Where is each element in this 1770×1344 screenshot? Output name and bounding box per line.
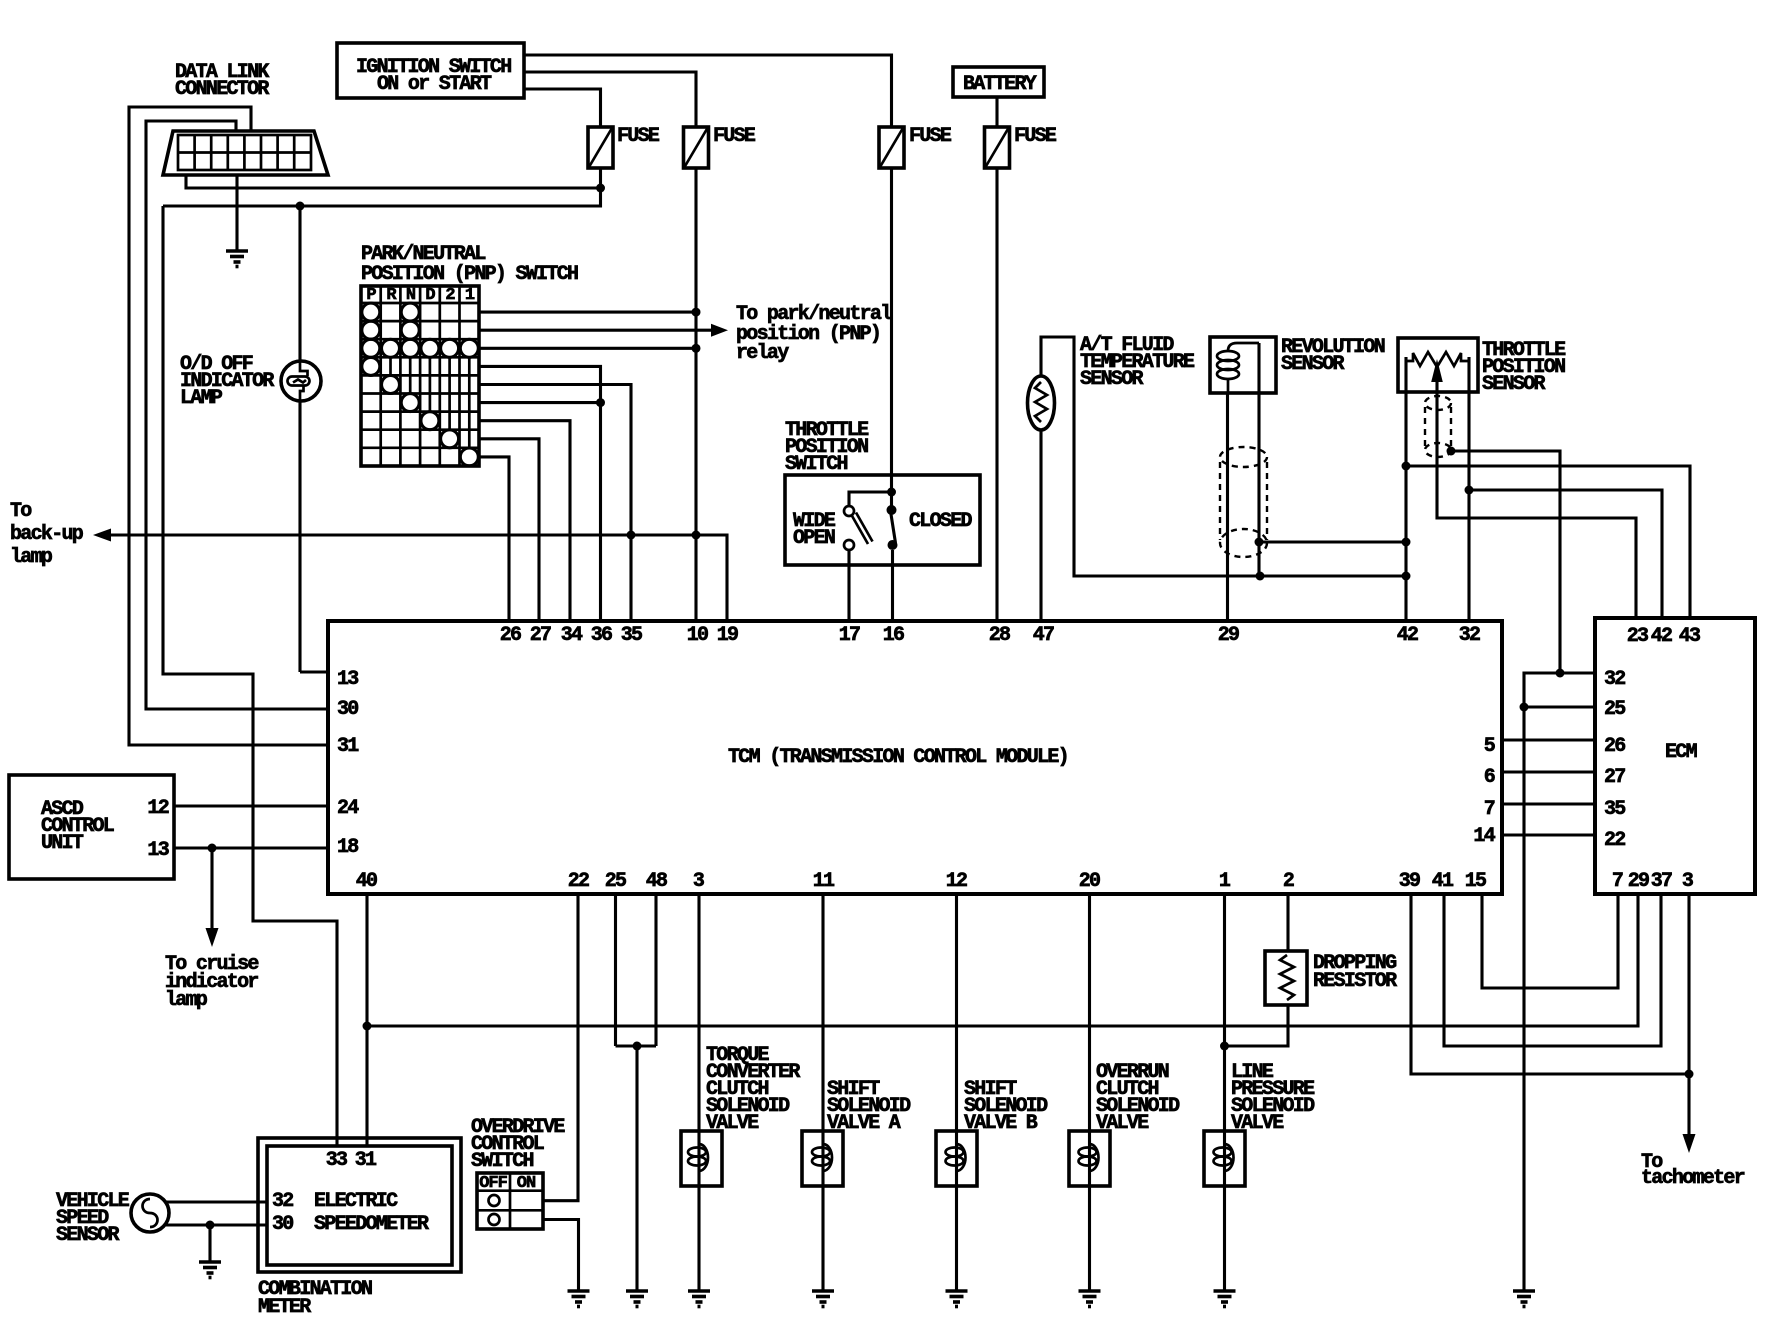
arrow to cruise indicator lamp — [206, 928, 219, 947]
wide open contact top — [844, 506, 854, 516]
wire fuse F1 output — [163, 168, 601, 206]
svg-text:27: 27 — [530, 624, 551, 647]
wire TCM 48 down — [654, 894, 657, 1046]
wire PNP row5 to TCM 35 — [479, 385, 631, 622]
svg-text:48: 48 — [646, 870, 667, 893]
svg-text:LAMP: LAMP — [180, 387, 223, 410]
wire PNP row3 to fuse F2 line — [479, 347, 696, 350]
node switch feed — [887, 488, 896, 497]
node shield drain/ECM32 — [1556, 669, 1565, 678]
svg-text:33: 33 — [326, 1149, 347, 1172]
svg-text:tachometer: tachometer — [1641, 1167, 1745, 1190]
O/D OFF indicator lamp — [281, 361, 321, 401]
fuse F3 — [879, 125, 952, 168]
node VSS ground tap — [206, 1221, 215, 1230]
node ECM25 tap — [1520, 703, 1529, 712]
svg-text:35: 35 — [621, 624, 642, 647]
node back-up/R wire — [627, 531, 636, 540]
svg-text:23: 23 — [1627, 625, 1648, 648]
svg-text:32: 32 — [1459, 624, 1480, 647]
svg-text:ELECTRIC: ELECTRIC — [314, 1190, 398, 1213]
svg-text:FUSE: FUSE — [617, 125, 660, 148]
svg-text:ON: ON — [517, 1174, 536, 1193]
svg-text:11: 11 — [813, 870, 835, 893]
wire connector to fuse F1 node — [186, 175, 601, 188]
svg-text:12: 12 — [946, 870, 967, 893]
wide open label — [793, 510, 836, 550]
svg-text:FUSE: FUSE — [909, 125, 952, 148]
node 42 net/ECM43 line — [1402, 462, 1411, 471]
PNP contact circle row 6 N — [401, 394, 419, 412]
wire TPS left to TCM 42 — [1404, 357, 1407, 621]
svg-text:13: 13 — [337, 668, 358, 691]
wire PNP row7 to TCM 34 — [479, 421, 570, 621]
svg-text:29: 29 — [1218, 624, 1239, 647]
svg-text:OPEN: OPEN — [793, 527, 835, 550]
wire fuse F3 output into switch — [890, 168, 893, 506]
svg-text:22: 22 — [568, 870, 589, 893]
revolution sensor label — [1281, 336, 1385, 376]
svg-text:32: 32 — [272, 1190, 293, 1213]
wire TCM 15 to ECM 7 — [1482, 894, 1618, 988]
wire PNP row1 to fuse F2 line — [479, 311, 696, 314]
wire TPS wiper to ECM 23 — [1437, 392, 1636, 618]
svg-text:12: 12 — [147, 797, 168, 820]
svg-text:SENSOR: SENSOR — [1482, 373, 1546, 396]
ground overrun clutch solenoid — [1079, 1291, 1101, 1307]
wire TCM 40 long line to ECM 29 — [367, 894, 1638, 1026]
combination meter pin labels — [272, 1149, 377, 1236]
wire revolution sensor left to TCM 29 — [1226, 393, 1229, 621]
svg-text:29: 29 — [1628, 870, 1649, 893]
wire ECM 25 — [1524, 705, 1595, 708]
svg-text:26: 26 — [500, 624, 521, 647]
node row1/F2 — [692, 308, 701, 317]
wire TCM 12 to shift solenoid B — [955, 894, 958, 1291]
torque converter clutch solenoid valve — [681, 1131, 722, 1186]
wire VSS to meter 30 — [164, 1223, 267, 1226]
wire TCM 20 to overrun clutch solenoid — [1088, 894, 1091, 1291]
wire wide-open to TCM 17 — [847, 550, 850, 621]
node fuse F1 / connector feed — [596, 184, 605, 193]
svg-text:back-up: back-up — [10, 523, 84, 546]
data link connector label — [175, 61, 269, 101]
svg-text:43: 43 — [1679, 625, 1700, 648]
arrow to back-up lamp — [93, 529, 111, 542]
shift solenoid valve A — [802, 1131, 843, 1186]
svg-text:UNIT: UNIT — [41, 832, 84, 855]
svg-text:SENSOR: SENSOR — [56, 1224, 120, 1247]
svg-text:42: 42 — [1397, 624, 1418, 647]
shield TPS cable — [1425, 396, 1451, 457]
PNP contact circle row 9 1 — [460, 448, 478, 466]
wire TCM 3 to torque converter solenoid — [697, 894, 700, 1291]
svg-text:D: D — [425, 286, 435, 305]
svg-text:SENSOR: SENSOR — [1281, 353, 1345, 376]
wire TCM 14 to ECM 22 — [1502, 833, 1595, 836]
arrow to tachometer — [1683, 1134, 1696, 1153]
wire VSS to meter 32 — [164, 1200, 267, 1203]
overrun clutch solenoid valve — [1069, 1131, 1110, 1186]
wire ECM 32 to ground riser — [1524, 673, 1595, 1291]
wire TCM 22 to overdrive switch — [543, 894, 578, 1201]
svg-text:3: 3 — [1682, 870, 1693, 893]
ground VSS — [199, 1262, 221, 1278]
line pressure solenoid valve label — [1231, 1061, 1315, 1135]
line pressure solenoid valve — [1204, 1131, 1245, 1186]
ground torque converter solenoid — [688, 1291, 710, 1307]
wire 25/48 ground lead — [635, 1046, 638, 1291]
svg-text:39: 39 — [1399, 870, 1420, 893]
svg-text:2: 2 — [445, 286, 455, 305]
svg-text:7: 7 — [1612, 870, 1623, 893]
svg-text:TCM (TRANSMISSION CONTROL MODU: TCM (TRANSMISSION CONTROL MODULE) — [728, 746, 1068, 769]
overrun clutch solenoid valve label — [1096, 1061, 1180, 1135]
PNP contact circles row 1 — [362, 303, 419, 321]
svg-text:ECM: ECM — [1665, 741, 1698, 764]
wire A/T sensor top to TCM 42 net — [1041, 337, 1406, 576]
wire connector ground lead — [235, 175, 238, 251]
svg-text:25: 25 — [1604, 698, 1625, 721]
svg-text:31: 31 — [355, 1149, 377, 1172]
TCM left pin labels — [337, 668, 359, 859]
svg-text:31: 31 — [337, 735, 359, 758]
node 25/48 ground tap — [633, 1042, 642, 1051]
svg-text:RESISTOR: RESISTOR — [1313, 970, 1397, 993]
ECM top pin labels — [1627, 625, 1700, 648]
wire connector pin to TCM 31 — [129, 107, 328, 745]
svg-text:40: 40 — [356, 870, 377, 893]
revolution sensor box — [1210, 337, 1276, 393]
wire TCM 11 to shift solenoid A — [821, 894, 824, 1291]
vehicle speed sensor label — [56, 1190, 130, 1247]
svg-text:15: 15 — [1465, 870, 1486, 893]
svg-text:13: 13 — [147, 839, 168, 862]
wire switch feed branch to wide-open contact — [849, 492, 892, 506]
wire connector pin to TCM 30 — [146, 121, 328, 709]
combination meter box — [258, 1138, 461, 1272]
svg-text:35: 35 — [1604, 798, 1625, 821]
overdrive control switch — [477, 1173, 543, 1229]
svg-text:47: 47 — [1033, 624, 1054, 647]
svg-text:10: 10 — [687, 624, 708, 647]
node line pressure/resistor — [1220, 1042, 1229, 1051]
O/D OFF indicator lamp label — [180, 353, 274, 410]
wire PNP row2 to PNP relay — [479, 329, 712, 332]
wire to ECM 42 — [1469, 490, 1662, 618]
ECM box — [1595, 618, 1755, 894]
battery box — [953, 67, 1044, 97]
wire VSS ground lead — [208, 1225, 211, 1262]
svg-text:34: 34 — [561, 624, 583, 647]
svg-text:CONNECTOR: CONNECTOR — [175, 78, 269, 101]
svg-text:41: 41 — [1432, 870, 1454, 893]
wire TCM 41 to ECM 37 — [1444, 894, 1661, 1046]
wire TCM 2 to dropping resistor — [1286, 894, 1289, 951]
TCM right pin labels — [1473, 735, 1495, 848]
svg-text:17: 17 — [839, 624, 860, 647]
node 42 net/576 — [1402, 572, 1411, 581]
svg-text:POSITION (PNP) SWITCH: POSITION (PNP) SWITCH — [361, 263, 578, 286]
svg-text:3: 3 — [693, 870, 704, 893]
svg-text:19: 19 — [717, 624, 738, 647]
combination meter label — [258, 1278, 372, 1319]
node O/D lamp feed — [296, 202, 305, 211]
wire A/T sensor bottom to TCM 47 — [1039, 430, 1042, 621]
arrow to PNP relay — [711, 324, 728, 337]
node 42 net/542 — [1402, 538, 1411, 547]
svg-text:6: 6 — [1484, 766, 1495, 789]
PNP column wire 1 — [468, 357, 471, 448]
wire ECM 3 to tachometer — [1687, 894, 1690, 1135]
svg-text:36: 36 — [591, 624, 612, 647]
throttle position switch box — [785, 475, 980, 565]
node row6/row4 riser — [596, 398, 605, 407]
svg-text:FUSE: FUSE — [713, 125, 756, 148]
wire TCM 1 to line pressure solenoid — [1223, 894, 1226, 1291]
svg-text:BATTERY: BATTERY — [963, 73, 1037, 96]
svg-text:ON or START: ON or START — [377, 73, 492, 96]
dropping resistor label — [1313, 952, 1397, 993]
wire ASCD 12 to TCM 24 — [174, 804, 328, 807]
wire PNP row4 to TCM 36 — [479, 366, 601, 621]
PNP contact circle row 5 R — [382, 376, 400, 394]
wire PNP row9 to TCM 26 — [479, 457, 509, 621]
wire PNP row8 to TCM 27 — [479, 439, 539, 621]
TCM transmission control module box — [328, 621, 1502, 894]
wire PNP row6 joins row4 riser — [479, 401, 601, 404]
svg-text:14: 14 — [1473, 825, 1495, 848]
svg-text:28: 28 — [989, 624, 1010, 647]
ECM left pin labels — [1604, 668, 1625, 852]
ground TCM 25/48 — [626, 1291, 648, 1307]
svg-text:22: 22 — [1604, 829, 1625, 852]
svg-text:To: To — [10, 500, 32, 523]
wire dropping resistor to line pressure node — [1225, 1005, 1289, 1046]
wide open lever — [852, 513, 873, 545]
closed contact bottom — [888, 540, 898, 550]
wire TCM 39 to tachometer line — [1411, 894, 1689, 1074]
svg-text:7: 7 — [1484, 798, 1495, 821]
PNP contact circle row 7 D — [421, 412, 439, 430]
wire battery to fuse F4 — [995, 97, 998, 127]
svg-text:5: 5 — [1484, 735, 1495, 758]
svg-text:42: 42 — [1651, 625, 1672, 648]
PNP column wire 2 — [448, 357, 451, 430]
closed lever — [891, 511, 896, 543]
fuse F4 — [985, 125, 1057, 168]
wire fuse F2 output to TCM 10 — [694, 168, 697, 621]
svg-text:26: 26 — [1604, 735, 1625, 758]
ground shift solenoid B — [946, 1291, 968, 1307]
wire TPS right to TCM 32 — [1467, 357, 1470, 621]
svg-text:lamp: lamp — [165, 989, 208, 1012]
wire TCM 5 to ECM 26 — [1502, 738, 1595, 741]
ECM bottom pin labels — [1612, 870, 1693, 893]
A/T fluid temperature sensor — [1028, 376, 1055, 430]
data link connector — [163, 131, 328, 175]
svg-text:18: 18 — [337, 836, 358, 859]
electric speedometer label — [314, 1190, 429, 1236]
svg-text:30: 30 — [272, 1213, 293, 1236]
svg-text:METER: METER — [258, 1296, 311, 1319]
wire overdrive switch to ground — [543, 1220, 579, 1292]
closed contact top — [887, 505, 897, 515]
node back-up/F2 wire — [692, 531, 701, 540]
node TPS shield drain — [1447, 447, 1456, 456]
shield revolution sensor cable — [1220, 447, 1267, 557]
wire ignition to fuse F1 — [524, 89, 601, 127]
PNP contact circle row 4 P — [362, 357, 380, 375]
svg-text:1: 1 — [1219, 870, 1231, 893]
PNP column wire N — [409, 357, 412, 393]
wire 542 to TPS left riser — [1259, 540, 1406, 543]
svg-text:20: 20 — [1079, 870, 1100, 893]
node TCM40 tap — [363, 1022, 372, 1031]
wire ignition to fuse F3 — [524, 55, 892, 127]
svg-text:FUSE: FUSE — [1014, 125, 1057, 148]
svg-text:SENSOR: SENSOR — [1080, 368, 1144, 391]
svg-text:relay: relay — [736, 342, 789, 365]
revolution sensor coil — [1217, 343, 1259, 393]
PNP column wire R — [389, 357, 392, 375]
svg-text:37: 37 — [1651, 870, 1672, 893]
svg-text:lamp: lamp — [10, 546, 53, 569]
wire back-up lamp line to TCM 19 — [110, 535, 727, 621]
wire TCM 40 to meter 31 — [365, 894, 368, 1146]
node rev right/542 — [1255, 538, 1264, 547]
throttle position sensor box — [1398, 338, 1478, 392]
svg-text:SWITCH: SWITCH — [471, 1150, 534, 1173]
node cruise branch — [208, 844, 217, 853]
vehicle speed sensor — [131, 1194, 169, 1232]
wire to ECM 43 — [1406, 466, 1690, 618]
fuse F1 — [588, 125, 660, 168]
svg-text:32: 32 — [1604, 668, 1625, 691]
svg-text:25: 25 — [605, 870, 626, 893]
shift solenoid valve B label — [964, 1078, 1048, 1135]
wire ASCD 13 to TCM 18 — [174, 846, 328, 849]
shift solenoid valve A label — [827, 1078, 911, 1135]
ground data link connector — [226, 251, 248, 267]
wire fuse F4 output to TCM 28 — [995, 168, 998, 621]
svg-text:OFF: OFF — [479, 1174, 507, 1193]
svg-text:30: 30 — [337, 698, 358, 721]
wide open contact bottom — [844, 540, 854, 550]
wire O/D lamp branch to TCM 13 — [300, 206, 328, 672]
svg-text:27: 27 — [1604, 766, 1625, 789]
node tachometer junction — [1685, 1070, 1694, 1079]
to cruise indicator lamp label — [165, 953, 259, 1012]
park/neutral position switch label — [361, 243, 578, 286]
ground overdrive switch — [568, 1291, 590, 1307]
svg-text:16: 16 — [883, 624, 904, 647]
wire ignition to fuse F2 — [524, 72, 696, 127]
svg-text:SPEEDOMETER: SPEEDOMETER — [314, 1213, 429, 1236]
ground ECM riser — [1513, 1291, 1535, 1307]
fuse F2 — [684, 125, 756, 168]
to tachometer label — [1641, 1151, 1745, 1190]
PNP header letters — [366, 286, 475, 305]
svg-text:SWITCH: SWITCH — [785, 453, 848, 476]
svg-text:24: 24 — [337, 797, 359, 820]
wire 25/48 bridge — [616, 1044, 657, 1047]
TCM top pin labels — [500, 624, 1480, 647]
node 32 net/ECM42 line — [1465, 486, 1474, 495]
to park/neutral position relay label — [736, 303, 892, 365]
dropping resistor — [1265, 951, 1307, 1005]
TCM bottom pin labels — [356, 870, 1486, 893]
A/T fluid temperature sensor label — [1080, 334, 1195, 391]
ASCD control unit box — [9, 775, 174, 879]
PNP contact circles row 3 — [362, 339, 479, 357]
wire closed to TCM 16 — [891, 550, 894, 621]
node shield/576 — [1256, 572, 1265, 581]
node row3/F2 — [692, 344, 701, 353]
PNP column wire D — [429, 357, 432, 411]
wire cruise indicator drop — [210, 848, 213, 929]
throttle position sensor potentiometer — [1406, 352, 1469, 392]
PNP switch grid — [361, 286, 479, 466]
throttle position switch label — [785, 419, 869, 476]
wire TCM 6 to ECM 27 — [1502, 770, 1595, 773]
PNP contact circle row 8 2 — [441, 430, 459, 448]
wire TPS shield drain to ECM 32 net — [1451, 451, 1560, 673]
wire TCM 7 to ECM 35 — [1502, 802, 1595, 805]
wire revolution sensor right lead — [1257, 343, 1260, 576]
ignition switch box — [337, 43, 524, 98]
shift solenoid valve B — [936, 1131, 977, 1186]
overdrive control switch label — [471, 1116, 565, 1173]
svg-text:CLOSED: CLOSED — [909, 510, 973, 533]
ground shift solenoid A — [812, 1291, 834, 1307]
svg-text:2: 2 — [1283, 870, 1294, 893]
throttle position sensor label — [1482, 339, 1566, 396]
PNP contact circles row 2 — [362, 321, 419, 339]
ground line pressure solenoid — [1214, 1291, 1236, 1307]
wire TCM 25 down — [614, 894, 617, 1046]
torque converter clutch solenoid valve label — [706, 1044, 800, 1135]
wire left riser to meter 33 — [163, 206, 337, 1146]
svg-text:1: 1 — [465, 286, 475, 305]
to back-up lamp label — [10, 500, 84, 569]
